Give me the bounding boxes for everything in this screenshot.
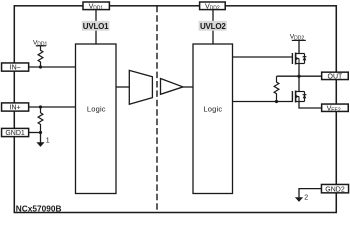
svg-text:2: 2: [304, 194, 308, 201]
svg-text:IN–: IN–: [10, 65, 21, 72]
svg-text:1: 1: [46, 138, 50, 145]
wire Logic2 to Q2 gate: [233, 101, 293, 103]
wire GND2 to ground symbol 2: [299, 189, 322, 198]
svg-text:Logic: Logic: [203, 105, 222, 114]
VDD1 rail label: [33, 39, 48, 47]
svg-text:EE2: EE2: [331, 108, 341, 114]
logic block 1: [76, 44, 117, 194]
wire Q1 source to OUT node: [298, 64, 300, 77]
wire Logic1 to TX buffer: [116, 86, 129, 88]
wire IN+ to Logic1: [29, 106, 76, 108]
pin box OUT: [322, 72, 349, 80]
pin box IN+: [2, 103, 29, 112]
pin box IN-: [2, 63, 29, 72]
isolation barrier (dashed): [156, 6, 158, 213]
wire Logic2 to Q1 gate: [233, 56, 293, 58]
TX buffer (trapezoid): [129, 70, 152, 104]
RX buffer (triangle): [161, 79, 184, 95]
wire OUT node to Q2 drain: [298, 76, 300, 91]
junction dot OUT node: [297, 75, 300, 78]
svg-text:DD1: DD1: [37, 42, 47, 48]
junction dot at GND1 / resistor: [39, 131, 42, 134]
UVLO2 block: [199, 21, 227, 31]
pin box VEE2: [322, 104, 349, 114]
wire Q2 source to VEE2: [299, 102, 322, 109]
wire GND1 to pull-down resistor: [29, 132, 41, 134]
IC package boundary NCx57090B: [14, 6, 336, 213]
MOSFET Q1 (high side): [292, 53, 306, 65]
OUT node wire: [277, 75, 322, 77]
wire VDD2 to Q1 drain: [298, 40, 300, 53]
svg-text:UVLO2: UVLO2: [200, 22, 226, 31]
svg-text:DD1: DD1: [93, 5, 103, 11]
ground symbol 2: [295, 194, 308, 202]
pin box VDD2: [200, 1, 226, 11]
svg-text:Logic: Logic: [87, 105, 106, 114]
svg-text:GND2: GND2: [325, 186, 345, 193]
UVLO1 block: [82, 21, 110, 31]
right pin rail: [335, 6, 337, 213]
VDD2 rail label: [290, 33, 306, 41]
resistor pull-up on IN-: [38, 46, 43, 67]
wire VDD1 box to Logic1 top: [95, 10, 97, 44]
svg-text:NCx57090B: NCx57090B: [16, 203, 62, 213]
gate resistor between OUT node and Q2 gate: [274, 76, 279, 101]
resistor pull-down on IN+: [38, 107, 43, 133]
wire VDD2 box to Logic2 top: [212, 10, 214, 44]
wire RX buffer to Logic2: [183, 86, 193, 88]
wire IN- to Logic1: [29, 66, 76, 68]
ground symbol 1: [36, 133, 49, 147]
junction dot resistor bottom / Q2 gate: [275, 100, 278, 103]
svg-text:UVLO1: UVLO1: [83, 22, 109, 31]
pin box VDD1: [83, 1, 109, 11]
MOSFET Q2 (low side): [292, 91, 306, 103]
svg-text:DD2: DD2: [210, 5, 220, 11]
svg-text:GND1: GND1: [5, 130, 25, 137]
pin box GND1: [2, 128, 29, 137]
junction dot at IN- / resistor: [39, 65, 42, 68]
logic block 2: [193, 44, 233, 194]
svg-text:IN+: IN+: [10, 105, 21, 112]
pin box GND2: [321, 184, 348, 193]
junction dot at IN+ / resistor: [39, 105, 42, 108]
svg-text:OUT: OUT: [328, 74, 344, 81]
